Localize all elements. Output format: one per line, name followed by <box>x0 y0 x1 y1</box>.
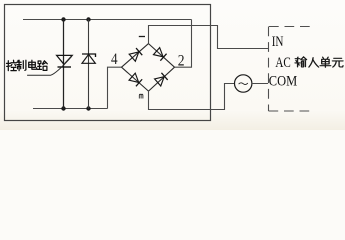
thyristor V1 gate wire <box>27 56 72 75</box>
bridge diode D-UR (points to right vertex) <box>153 48 166 61</box>
wire zener vertical <box>88 20 90 109</box>
wire pin1 to IN terminal <box>149 26 269 49</box>
电 <box>29 60 37 69</box>
junction dot top SCR <box>61 17 65 21</box>
bridge edge UR <box>149 44 175 68</box>
wire AC source to COM terminal <box>252 83 268 85</box>
bridge diode D-LR (points to right vertex) <box>155 73 168 86</box>
junction dot bottom SCR <box>61 106 65 110</box>
wire pin2 to top rail <box>175 20 192 68</box>
svg-text:AC: AC <box>275 55 290 71</box>
junction dot bottom zener <box>86 106 90 110</box>
AC source tilde <box>239 83 248 85</box>
svg-text:IN: IN <box>272 34 284 50</box>
控 <box>7 60 17 70</box>
单 <box>320 57 331 67</box>
dashed box bottom edge <box>269 110 313 112</box>
路 <box>38 61 48 71</box>
label AC 输入单元 chinese part <box>295 57 343 67</box>
元 <box>332 58 343 67</box>
wire SCR vertical <box>63 20 65 109</box>
wire pin4 to bottom rail <box>108 67 122 108</box>
bridge edge LR <box>149 67 175 91</box>
svg-text:COM: COM <box>269 73 297 89</box>
junction dot top zener <box>86 17 90 21</box>
wire pin3 to AC source <box>149 84 235 110</box>
bridge diode D-LL (points to bottom vertex) <box>129 73 142 86</box>
bridge edge LL <box>122 67 149 91</box>
svg-text:2: 2 <box>178 52 185 69</box>
dashed box top edge <box>269 26 313 28</box>
bridge pin label 3 (rotated) <box>139 94 143 98</box>
zener diode VS triangle <box>82 54 95 63</box>
入 <box>309 58 319 67</box>
svg-text:4: 4 <box>111 51 118 68</box>
bridge pin label 1 (rotated) <box>139 36 145 38</box>
制 <box>17 60 26 70</box>
top rail (DC+ bus) <box>23 19 192 21</box>
zener diode VS cathode bar <box>82 54 96 57</box>
bridge diode D-UL (points to top vertex) <box>129 48 142 61</box>
输 <box>295 57 307 67</box>
label 控制电路 (control circuit) <box>7 60 48 70</box>
bridge rectifier diamond: edge UL <box>122 44 149 68</box>
outer box (control circuit enclosure) <box>5 5 211 121</box>
bottom rail (DC- bus) <box>33 108 108 110</box>
thyristor V1 cathode bar <box>58 66 72 68</box>
thyristor V1 triangle <box>57 55 73 64</box>
dashed box AC input unit: left edge <box>268 27 270 112</box>
AC source circle <box>235 75 252 92</box>
